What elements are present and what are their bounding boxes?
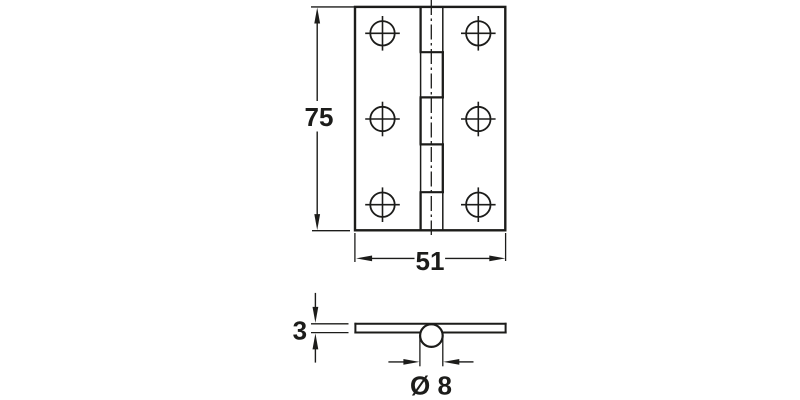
dimension 51 right line with arrow: [445, 256, 505, 262]
screw hole top-left: [365, 16, 400, 51]
knuckle segment 2 right heavy edge: [442, 52, 444, 97]
leaf plate top line (side view): [354, 323, 506, 325]
screw hole middle-right: [461, 102, 496, 137]
hinge leaf outline (front view): [355, 7, 505, 230]
knuckle divider 4: [420, 191, 445, 193]
leaf plate right end cap: [505, 323, 507, 334]
hinge pin centerline: [430, 0, 432, 235]
dimension diameter 8 left extension line: [419, 336, 421, 366]
leaf plate bottom line right segment: [443, 332, 507, 334]
knuckle segment 5 left heavy edge: [419, 192, 421, 230]
knuckle divider 3: [420, 143, 445, 145]
knuckle segment 4 right heavy edge: [442, 144, 444, 192]
dimension 3 top extension line: [311, 323, 349, 325]
dimension 75 bottom extension line: [312, 230, 350, 232]
screw hole bottom-right: [461, 187, 496, 222]
dimension 51 right extension line: [505, 233, 507, 261]
dimension 75 top extension line: [311, 6, 356, 8]
knuckle divider 1: [420, 51, 445, 53]
dimension diameter 8 left arrow pointing right: [388, 359, 419, 365]
knuckle segment 3 left heavy edge: [419, 97, 421, 144]
dimension 51 left extension line: [354, 233, 356, 262]
leaf plate bottom line left segment: [354, 332, 420, 334]
hinge barrel circle (side view): [420, 324, 443, 347]
svg-text:51: 51: [416, 246, 445, 276]
screw hole top-right: [461, 16, 496, 51]
dimension 75 upper line with arrow: [314, 8, 320, 102]
dimension 3 lower arrow pointing up: [313, 333, 319, 362]
dimension 51 left line with arrow: [356, 256, 414, 262]
knuckle segment 1 left heavy edge: [419, 7, 421, 52]
knuckle left edge: [420, 7, 422, 230]
svg-text:3: 3: [293, 315, 307, 345]
dimension 3 upper arrow pointing down: [313, 293, 319, 323]
knuckle divider 2: [420, 96, 445, 98]
dimension 75 lower line with arrow: [314, 132, 320, 231]
leaf plate left end cap: [354, 323, 356, 334]
screw hole bottom-left: [365, 187, 400, 222]
screw hole middle-left: [365, 102, 400, 137]
svg-text:75: 75: [305, 102, 334, 132]
dimension diameter 8 right arrow pointing left: [443, 359, 473, 365]
knuckle right edge: [442, 7, 444, 230]
dimension 3 bottom extension line: [311, 332, 349, 334]
svg-text:Ø 8: Ø 8: [410, 371, 452, 400]
dimension diameter 8 right extension line: [442, 336, 444, 366]
